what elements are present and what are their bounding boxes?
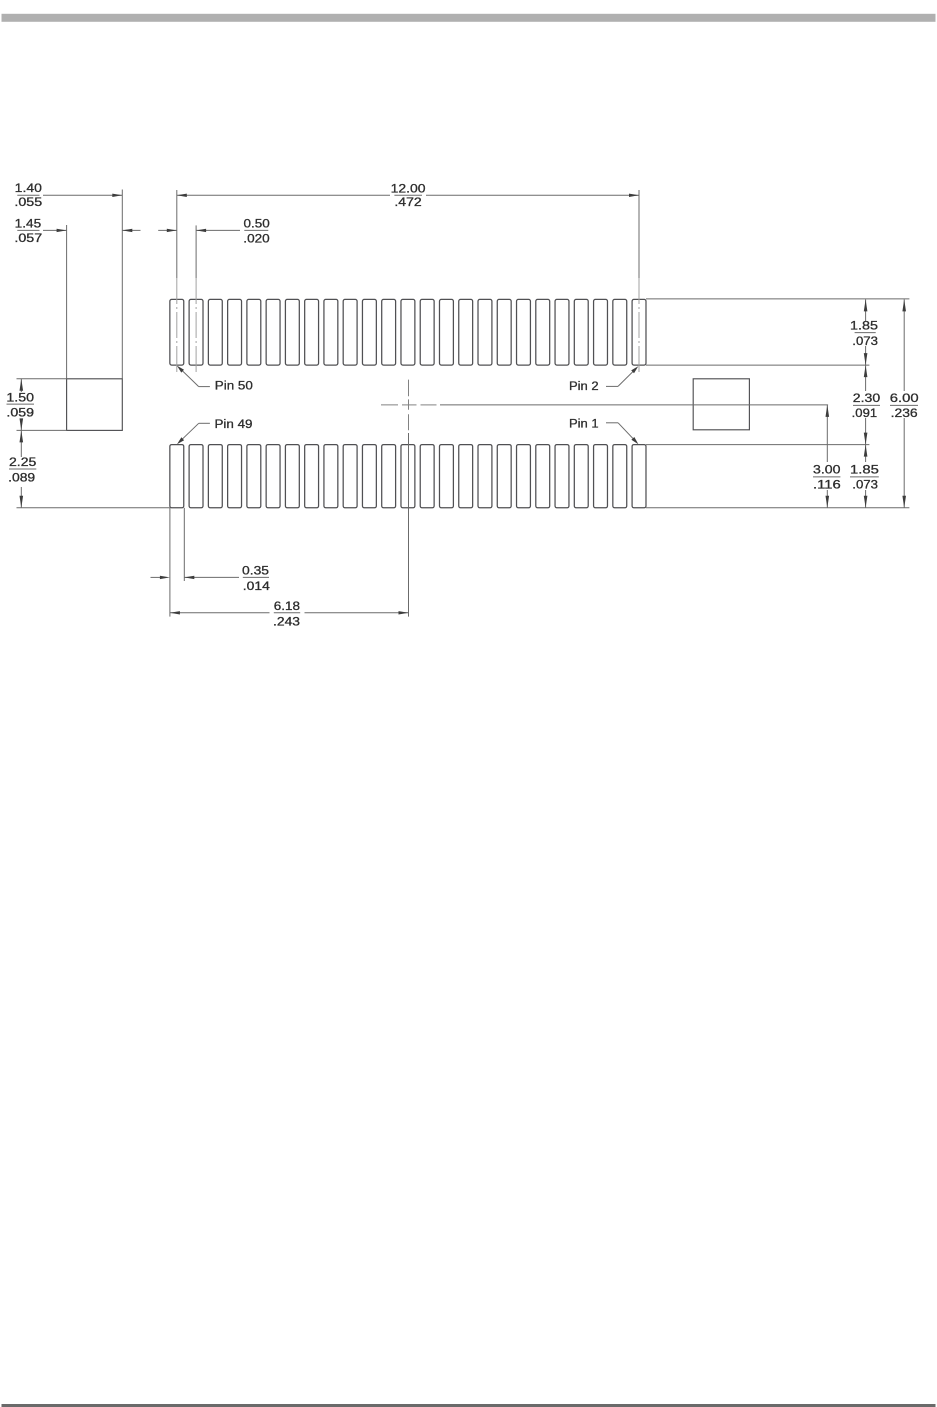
svg-text:1.45: 1.45 <box>15 217 42 231</box>
svg-text:3.00: 3.00 <box>813 463 841 477</box>
svg-text:.116: .116 <box>813 479 841 492</box>
svg-text:.236: .236 <box>891 407 918 420</box>
svg-text:2.30: 2.30 <box>853 391 881 405</box>
svg-text:.057: .057 <box>14 232 42 245</box>
svg-text:.091: .091 <box>852 407 877 420</box>
svg-text:.073: .073 <box>852 479 878 492</box>
svg-text:.073: .073 <box>852 335 878 348</box>
bottom extension line left <box>17 507 170 509</box>
dimension 1.50/.059 <box>6 379 34 431</box>
extension line box bottom-left <box>17 429 67 431</box>
svg-text:1.50: 1.50 <box>6 390 34 404</box>
svg-text:6.18: 6.18 <box>274 599 300 613</box>
label Pin 1 with leader <box>569 417 638 445</box>
svg-text:12.00: 12.00 <box>391 181 426 195</box>
extension line pad49 right edge <box>183 508 185 581</box>
extension line top pad top <box>646 298 909 300</box>
svg-text:Pin 50: Pin 50 <box>215 379 253 393</box>
dimension 1.85/.073 top <box>850 299 878 365</box>
svg-text:.014: .014 <box>243 580 271 593</box>
svg-text:Pin 2: Pin 2 <box>569 379 599 393</box>
dimension 6.18/.243 <box>170 599 409 629</box>
svg-text:1.85: 1.85 <box>850 463 879 477</box>
dimension 0.50/.020 <box>158 217 270 246</box>
svg-text:Pin 1: Pin 1 <box>569 417 599 431</box>
svg-text:0.35: 0.35 <box>242 563 269 577</box>
svg-text:.059: .059 <box>6 407 34 420</box>
label Pin 49 with leader <box>177 417 253 444</box>
extension/centerline through pin 2 <box>638 190 640 373</box>
extension/centerline through pin 49 col 2 <box>195 225 197 373</box>
extension line, left box left edge <box>66 225 68 379</box>
extension line box top-left <box>17 378 67 380</box>
dimension 2.30/.091 <box>852 365 881 445</box>
dimension 12.00/.472 <box>177 181 639 209</box>
extension/centerline through pin 50 <box>176 190 178 373</box>
extension line top pad bottom <box>646 364 869 366</box>
horizontal centerline <box>381 404 828 406</box>
svg-text:0.50: 0.50 <box>244 217 270 231</box>
dimension 2.25/.089 <box>8 430 36 507</box>
top pad row: pins 50..2 <box>170 299 646 365</box>
label Pin 2 with leader <box>569 366 638 393</box>
svg-text:1.85: 1.85 <box>850 318 878 332</box>
svg-text:6.00: 6.00 <box>890 391 919 405</box>
svg-text:.472: .472 <box>394 196 421 209</box>
svg-text:.243: .243 <box>273 615 300 628</box>
svg-text:.020: .020 <box>243 233 269 246</box>
svg-text:Pin 49: Pin 49 <box>215 417 253 431</box>
label Pin 50 with leader <box>177 366 253 393</box>
dimension 6.00/.236 <box>890 299 919 507</box>
left alignment box <box>67 379 123 431</box>
dimension 1.85/.073 bottom <box>850 445 879 508</box>
svg-text:1.40: 1.40 <box>15 181 42 195</box>
svg-text:2.25: 2.25 <box>9 455 36 469</box>
dimension 3.00/.116 <box>813 405 841 508</box>
footer bar <box>2 1404 936 1407</box>
svg-text:.055: .055 <box>14 196 42 209</box>
dimension 0.35/.014 <box>151 563 271 593</box>
extension line, left box right edge <box>121 190 123 379</box>
vertical centerline <box>408 380 410 617</box>
extension line bottom pad top <box>646 444 869 446</box>
header bar <box>2 14 936 22</box>
dimension 1.45/.057 <box>14 217 140 246</box>
dimension 1.40/.055 <box>14 181 122 209</box>
extension line pad49 left edge <box>169 508 171 617</box>
svg-text:.089: .089 <box>8 471 35 484</box>
right alignment box <box>693 379 749 430</box>
bottom extension line right of pads <box>646 507 909 509</box>
bottom pad row: pins 49..1 <box>170 445 646 508</box>
